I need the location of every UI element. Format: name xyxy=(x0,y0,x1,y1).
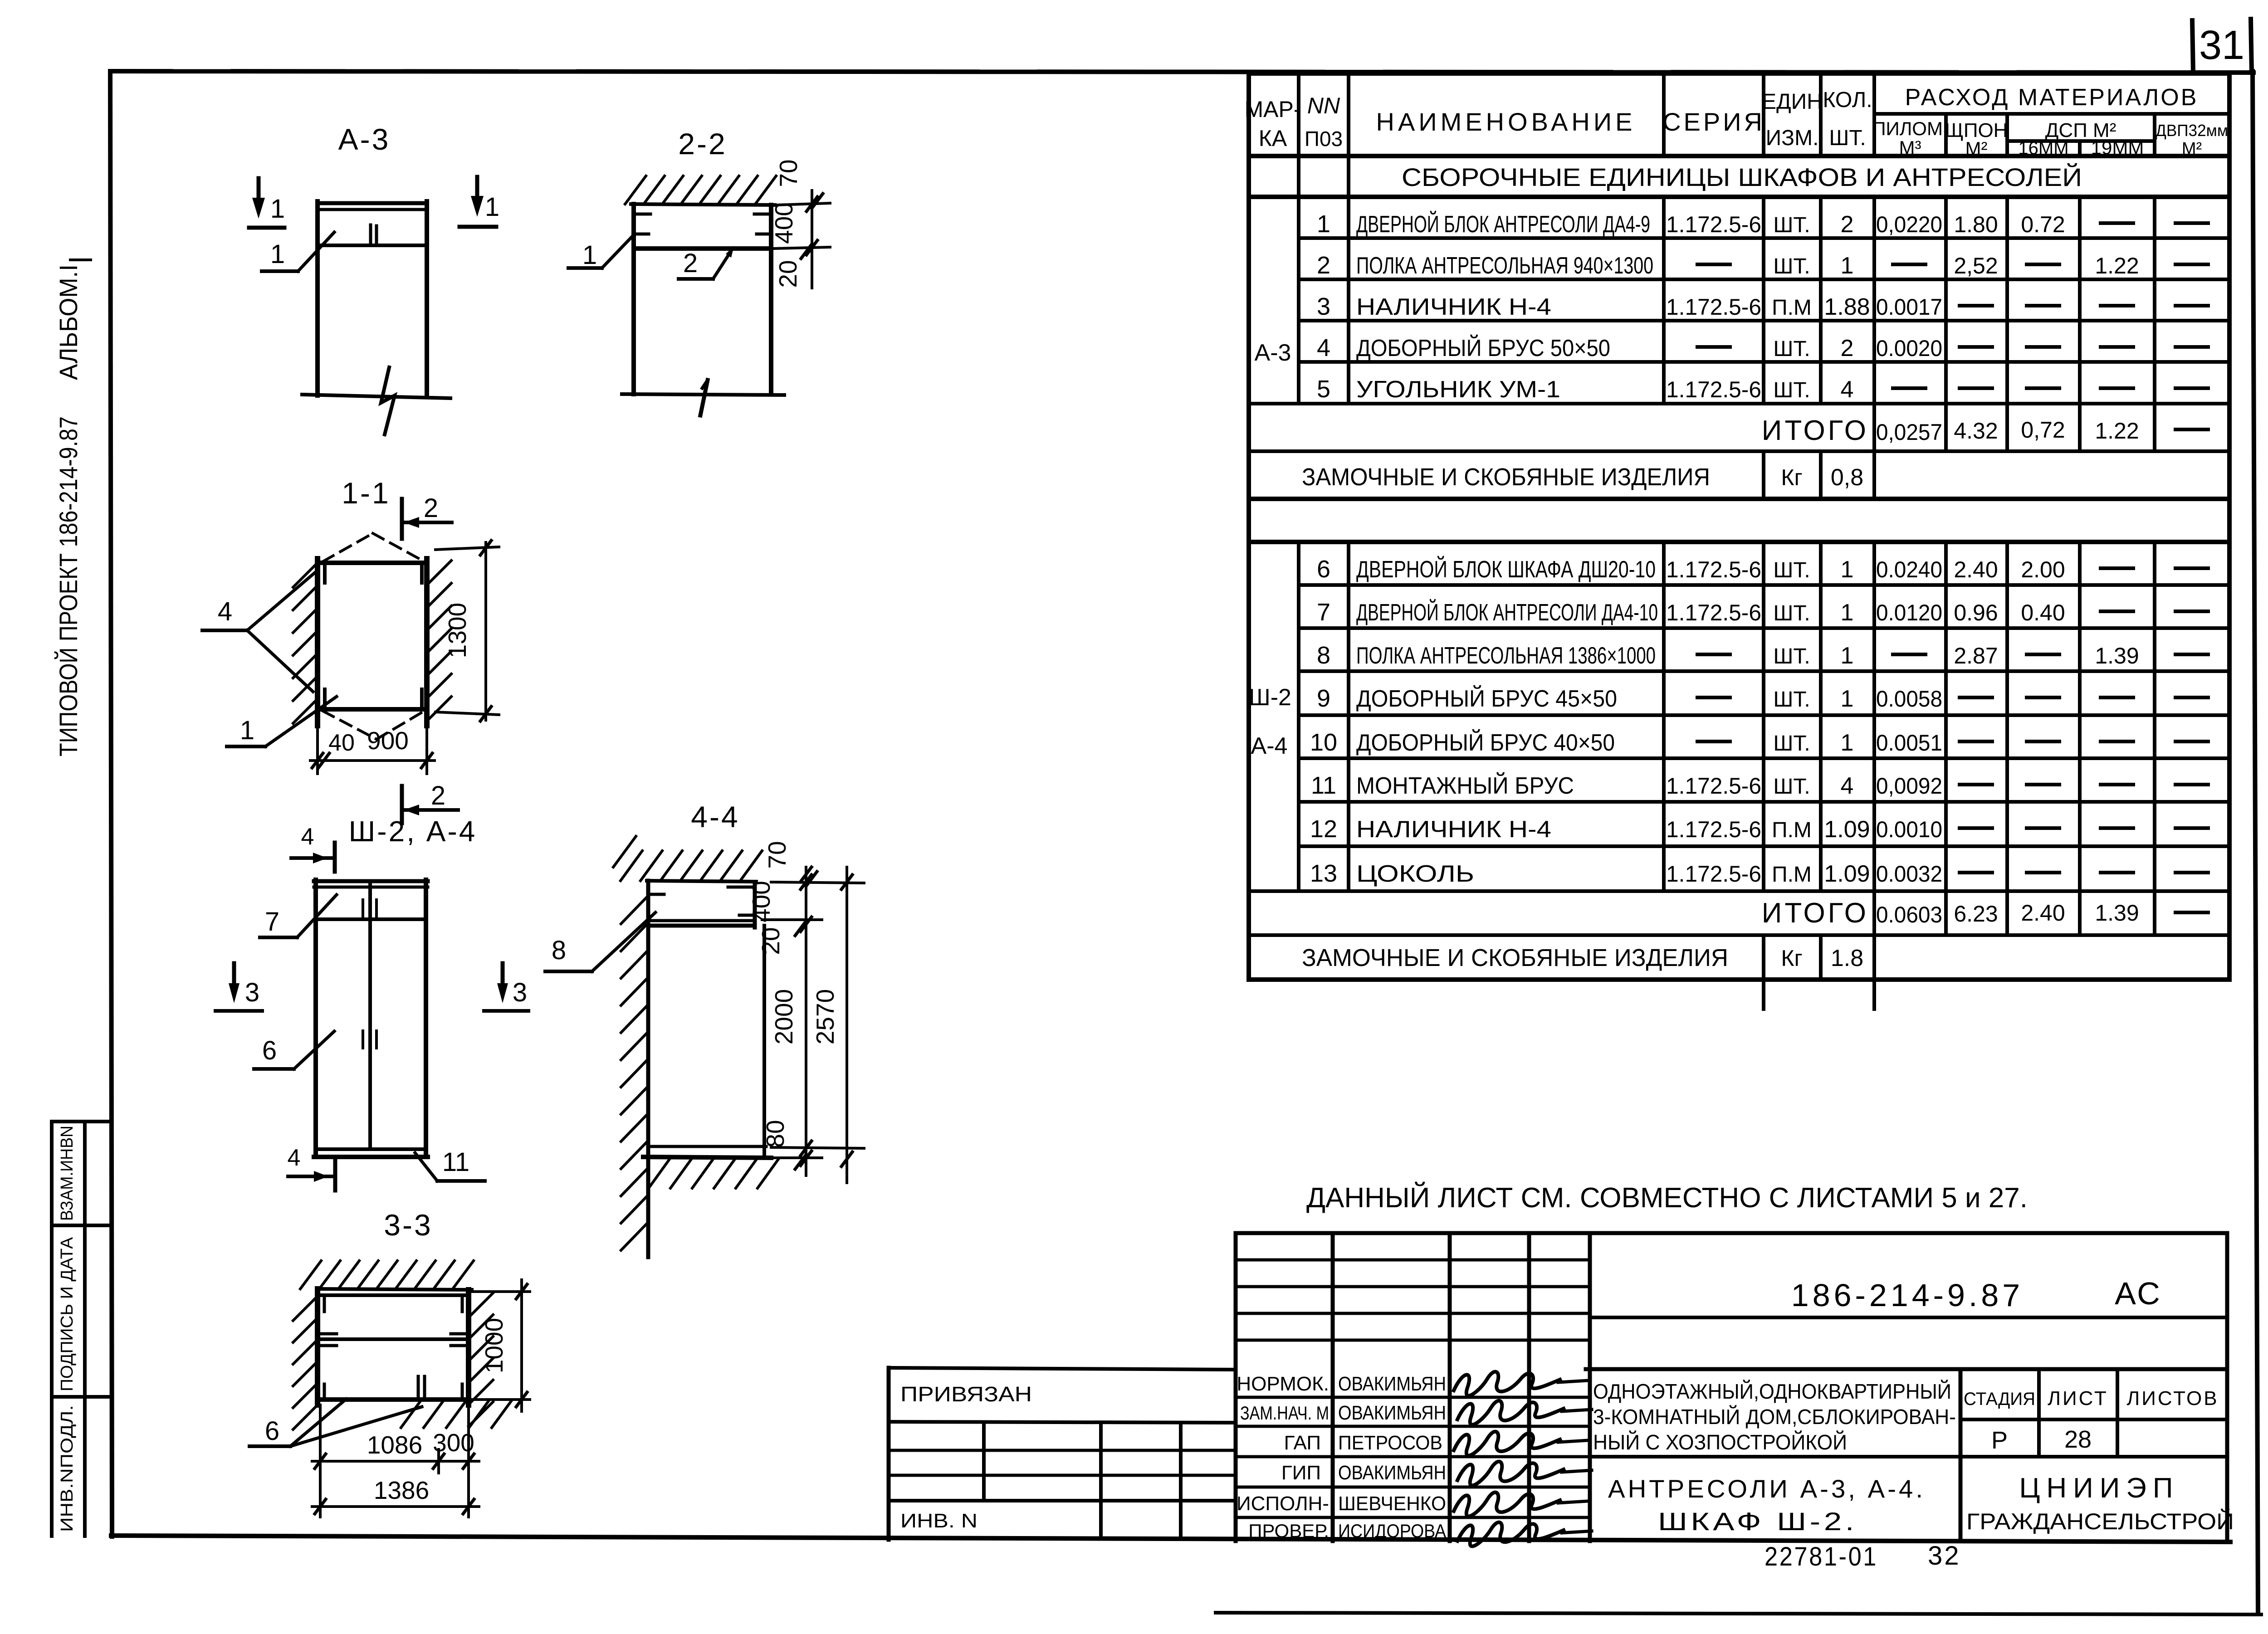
svg-text:ИТОГО: ИТОГО xyxy=(1762,415,1869,446)
table row 10 xyxy=(1310,729,2208,756)
svg-text:4: 4 xyxy=(1317,334,1330,361)
svg-text:1: 1 xyxy=(240,716,254,745)
svg-text:2-2: 2-2 xyxy=(678,127,727,161)
svg-text:ШТ.: ШТ. xyxy=(1773,732,1810,756)
svg-text:ШТ.: ШТ. xyxy=(1773,688,1810,712)
elevation Ш-2 А-4 title xyxy=(349,815,477,848)
svg-text:1: 1 xyxy=(1841,253,1854,279)
svg-text:6: 6 xyxy=(1317,556,1330,583)
svg-text:11: 11 xyxy=(1311,772,1336,799)
svg-text:1.09: 1.09 xyxy=(1824,816,1870,843)
svg-text:ШТ.: ШТ. xyxy=(1773,558,1810,582)
left margin stamp: project name vertical text xyxy=(54,260,91,756)
table header texts xyxy=(1245,84,2229,191)
title block organization cell xyxy=(1966,1473,2234,1534)
section 3-3 left wall with hatch xyxy=(293,1289,318,1429)
svg-text:1.172.5-6: 1.172.5-6 xyxy=(1666,817,1761,842)
document number 22781-01 32 xyxy=(1765,1541,1961,1571)
svg-text:3: 3 xyxy=(245,978,259,1007)
table row 12 xyxy=(1310,815,2208,843)
svg-text:П.М: П.М xyxy=(1772,296,1812,320)
svg-text:ЗАМ.НАЧ. М: ЗАМ.НАЧ. М xyxy=(1240,1402,1329,1424)
svg-text:ШЕВЧЕНКО: ШЕВЧЕНКО xyxy=(1338,1493,1446,1515)
svg-text:0.72: 0.72 xyxy=(2021,212,2065,237)
svg-text:4: 4 xyxy=(218,597,232,626)
svg-text:А-4: А-4 xyxy=(1251,733,1288,759)
svg-text:Р: Р xyxy=(1991,1427,2008,1454)
table row 8 xyxy=(1317,642,2208,669)
svg-text:П03: П03 xyxy=(1305,127,1343,151)
svg-text:ИЗМ.: ИЗМ. xyxy=(1766,126,1819,150)
svg-text:М²: М² xyxy=(1965,138,1988,159)
svg-text:1: 1 xyxy=(1841,686,1854,712)
svg-text:0.0120: 0.0120 xyxy=(1876,600,1942,625)
section 4-4 antresol box xyxy=(648,885,755,927)
svg-text:0.0017: 0.0017 xyxy=(1876,294,1942,320)
table row итого section 2 xyxy=(1762,897,2208,929)
svg-text:8: 8 xyxy=(1317,642,1330,669)
svg-text:1.172.5-6: 1.172.5-6 xyxy=(1666,557,1761,582)
section 3-3 dimension 1000 xyxy=(472,1280,530,1411)
svg-text:32: 32 xyxy=(1928,1541,1961,1571)
table row 1 xyxy=(1317,210,2208,238)
section 3-3 leader 6 xyxy=(249,1399,422,1446)
svg-text:7: 7 xyxy=(265,907,279,937)
svg-text:1.172.5-6: 1.172.5-6 xyxy=(1666,600,1761,625)
svg-text:Кг: Кг xyxy=(1781,946,1802,971)
svg-text:ПИЛОМ.: ПИЛОМ. xyxy=(1872,118,1948,139)
svg-text:Кг: Кг xyxy=(1781,465,1802,490)
svg-text:3-КОМНАТНЫЙ ДОМ,СБЛОКИРОВАН-: 3-КОМНАТНЫЙ ДОМ,СБЛОКИРОВАН- xyxy=(1593,1405,1956,1429)
svg-text:2: 2 xyxy=(1841,211,1854,238)
svg-text:4-4: 4-4 xyxy=(691,800,739,834)
svg-text:0.0020: 0.0020 xyxy=(1876,336,1942,361)
title block personnel names xyxy=(1338,1373,1446,1541)
svg-text:0,0220: 0,0220 xyxy=(1876,212,1942,237)
svg-text:19ММ: 19ММ xyxy=(2091,137,2144,158)
svg-text:1300: 1300 xyxy=(443,603,471,658)
section 4-4 title xyxy=(691,800,739,834)
svg-text:1.88: 1.88 xyxy=(1824,294,1870,320)
svg-text:А-3: А-3 xyxy=(1255,340,1291,366)
title block stadia list listov xyxy=(1960,1369,2227,1541)
svg-text:10: 10 xyxy=(1310,729,1337,756)
svg-text:УГОЛЬНИК УМ-1: УГОЛЬНИК УМ-1 xyxy=(1356,376,1560,403)
svg-text:2.40: 2.40 xyxy=(2021,900,2065,926)
table row итого section 1 xyxy=(1762,415,2208,446)
elevation Ш-2 cut mark 4 top xyxy=(291,824,335,872)
svg-text:ПЕТРОСОВ: ПЕТРОСОВ xyxy=(1338,1432,1442,1454)
svg-text:ЗАМОЧНЫЕ И СКОБЯНЫЕ ИЗДЕЛИЯ: ЗАМОЧНЫЕ И СКОБЯНЫЕ ИЗДЕЛИЯ xyxy=(1302,944,1728,971)
svg-text:ИТОГО: ИТОГО xyxy=(1762,897,1869,929)
elevation Ш-2 leader 11 xyxy=(415,1147,485,1181)
svg-text:1000: 1000 xyxy=(480,1318,508,1373)
svg-text:6: 6 xyxy=(262,1036,277,1065)
svg-text:13: 13 xyxy=(1310,860,1337,887)
section 1-1 title xyxy=(342,476,390,510)
svg-text:ПОЛКА АНТРЕСОЛЬНАЯ 940×1300: ПОЛКА АНТРЕСОЛЬНАЯ 940×1300 xyxy=(1356,253,1653,279)
title block sheet name cell xyxy=(1590,1457,2227,1536)
svg-text:НОРМОК.: НОРМОК. xyxy=(1237,1373,1329,1395)
svg-text:20: 20 xyxy=(757,927,785,955)
svg-text:6: 6 xyxy=(265,1416,279,1446)
section 4-4 wall with hatch xyxy=(621,881,648,1257)
table row 6 xyxy=(1317,556,2208,583)
svg-text:ДВЕРНОЙ БЛОК АНТРЕСОЛИ ДА4-9: ДВЕРНОЙ БЛОК АНТРЕСОЛИ ДА4-9 xyxy=(1356,211,1650,238)
svg-text:ОВАКИМЬЯН: ОВАКИМЬЯН xyxy=(1338,1373,1446,1395)
elevation Ш-2 cut mark 4 bottom xyxy=(288,1145,335,1190)
svg-text:0,0257: 0,0257 xyxy=(1876,419,1942,445)
svg-text:КОЛ.: КОЛ. xyxy=(1823,88,1872,112)
table row 3 xyxy=(1317,293,2208,320)
svg-text:2: 2 xyxy=(1317,252,1330,279)
section 1-1 right wall with hatch xyxy=(427,559,451,726)
svg-text:6.23: 6.23 xyxy=(1954,901,1998,927)
svg-text:2: 2 xyxy=(683,249,698,278)
svg-text:ШТ.: ШТ. xyxy=(1773,337,1810,361)
svg-text:ЦНИИЭП: ЦНИИЭП xyxy=(2019,1473,2180,1504)
section 1-1 dimension 1300 xyxy=(435,541,499,721)
svg-text:ДВЕРНОЙ БЛОК АНТРЕСОЛИ ДА4-10: ДВЕРНОЙ БЛОК АНТРЕСОЛИ ДА4-10 xyxy=(1356,599,1658,626)
svg-text:8: 8 xyxy=(552,936,566,965)
svg-text:28: 28 xyxy=(2064,1426,2092,1453)
svg-text:Ш-2, А-4: Ш-2, А-4 xyxy=(349,815,477,848)
svg-text:СТАДИЯ: СТАДИЯ xyxy=(1964,1389,2035,1409)
svg-text:4: 4 xyxy=(1841,376,1854,403)
svg-text:НАЛИЧНИК Н-4: НАЛИЧНИК Н-4 xyxy=(1356,294,1551,320)
svg-text:0.0240: 0.0240 xyxy=(1876,557,1942,582)
svg-text:ШТ.: ШТ. xyxy=(1829,126,1866,150)
elevation Ш-2 cut mark 3 left xyxy=(215,963,262,1011)
svg-text:ШТ.: ШТ. xyxy=(1773,378,1810,402)
drawing A-3 section mark 1 right xyxy=(459,177,499,227)
title block project name cell xyxy=(1586,1369,2227,1454)
section 3-3 ceiling with hatch xyxy=(300,1261,474,1290)
table row 4 xyxy=(1317,334,2208,361)
svg-text:1.172.5-6: 1.172.5-6 xyxy=(1666,773,1761,799)
svg-text:0.96: 0.96 xyxy=(1954,600,1998,625)
svg-text:ШТ.: ШТ. xyxy=(1773,644,1810,668)
svg-text:МОНТАЖНЫЙ БРУС: МОНТАЖНЫЙ БРУС xyxy=(1356,772,1574,799)
svg-text:1: 1 xyxy=(1841,730,1854,756)
table row замочные изделия section 2 xyxy=(1302,944,1863,971)
svg-text:ШКАФ Ш-2.: ШКАФ Ш-2. xyxy=(1658,1507,1857,1536)
svg-text:0,8: 0,8 xyxy=(1831,464,1863,491)
section 3-3 cabinet plan box xyxy=(320,1295,466,1400)
elevation Ш-2 cut mark 3 right xyxy=(484,963,528,1011)
section 2-2 floor break line xyxy=(622,380,784,415)
svg-text:300: 300 xyxy=(433,1429,474,1457)
svg-text:М³: М³ xyxy=(1899,137,1921,158)
svg-text:3-3: 3-3 xyxy=(384,1208,432,1242)
section 2-2 dimension chain 70 400 20 xyxy=(770,159,830,288)
svg-text:1.22: 1.22 xyxy=(2095,253,2139,278)
svg-text:22781-01: 22781-01 xyxy=(1765,1542,1878,1571)
svg-text:0.0603: 0.0603 xyxy=(1876,902,1942,927)
table marka labels xyxy=(1249,340,1291,759)
svg-text:16ММ: 16ММ xyxy=(2018,138,2068,158)
materials table grid xyxy=(1249,73,2229,1009)
svg-text:ШТ.: ШТ. xyxy=(1773,213,1810,237)
svg-text:3: 3 xyxy=(513,978,527,1007)
svg-text:1: 1 xyxy=(1317,210,1330,238)
drawing A-3 title xyxy=(338,122,391,156)
svg-text:2: 2 xyxy=(431,781,445,810)
section 1-1 left wall with hatch xyxy=(293,559,318,726)
svg-text:ИНВ. N: ИНВ. N xyxy=(900,1510,978,1532)
svg-text:12: 12 xyxy=(1310,815,1337,843)
section 4-4 floor with hatch xyxy=(643,1146,778,1188)
svg-text:П.М: П.М xyxy=(1772,818,1812,842)
table row 5 xyxy=(1317,376,2208,403)
svg-text:ТИПОВОЙ ПРОЕКТ 186-214-9.87: ТИПОВОЙ ПРОЕКТ 186-214-9.87 xyxy=(54,416,83,756)
section 1-1 leader 4 xyxy=(202,572,315,692)
svg-text:ДОБОРНЫЙ БРУС 50×50: ДОБОРНЫЙ БРУС 50×50 xyxy=(1356,335,1610,361)
svg-text:186-214-9.87: 186-214-9.87 xyxy=(1791,1278,2024,1313)
svg-text:2,52: 2,52 xyxy=(1954,253,1998,278)
svg-text:ЕДИН: ЕДИН xyxy=(1762,90,1823,114)
note: see sheets 5 and 27 xyxy=(1306,1182,2028,1214)
svg-text:ШТ.: ШТ. xyxy=(1773,775,1810,799)
section 4-4 dimension chain 70 400 20 2000 80 xyxy=(747,841,864,1176)
svg-text:ЛИСТОВ: ЛИСТОВ xyxy=(2126,1387,2219,1410)
section 1-1 cut mark 2 top xyxy=(402,493,452,539)
svg-text:ИСИДОРОВА: ИСИДОРОВА xyxy=(1338,1520,1446,1541)
svg-text:40: 40 xyxy=(328,730,355,756)
svg-text:1.172.5-6: 1.172.5-6 xyxy=(1666,861,1761,887)
section 2-2 cabinet section xyxy=(634,204,771,394)
svg-text:НАЛИЧНИК Н-4: НАЛИЧНИК Н-4 xyxy=(1356,816,1551,843)
svg-text:NN: NN xyxy=(1307,93,1340,118)
svg-text:2: 2 xyxy=(1841,335,1854,361)
svg-text:1.22: 1.22 xyxy=(2095,418,2139,444)
section 2-2 leader 1 xyxy=(568,235,634,270)
svg-text:900: 900 xyxy=(367,727,409,755)
svg-text:ШТ.: ШТ. xyxy=(1773,601,1810,625)
svg-text:1.39: 1.39 xyxy=(2095,900,2139,926)
svg-text:2570: 2570 xyxy=(811,989,839,1044)
section 3-3 right wall with hatch xyxy=(469,1290,493,1426)
svg-text:3: 3 xyxy=(1317,293,1330,320)
svg-text:1.39: 1.39 xyxy=(2095,643,2139,668)
section 3-3 floor hatch xyxy=(401,1400,512,1428)
svg-text:0.0058: 0.0058 xyxy=(1876,686,1942,712)
section 1-1 cut mark 2 bottom xyxy=(402,781,458,823)
svg-text:0.40: 0.40 xyxy=(2021,600,2065,625)
svg-text:ГИП: ГИП xyxy=(1281,1462,1321,1484)
svg-text:2000: 2000 xyxy=(770,989,798,1044)
svg-text:4.32: 4.32 xyxy=(1954,418,1998,444)
svg-text:1.172.5-6: 1.172.5-6 xyxy=(1666,294,1761,320)
svg-text:ПРОВЕР.: ПРОВЕР. xyxy=(1248,1520,1329,1541)
elevation Ш-2 cabinet front xyxy=(314,880,428,1157)
svg-text:ИНВ.NПОДЛ.: ИНВ.NПОДЛ. xyxy=(58,1405,77,1532)
svg-text:2.40: 2.40 xyxy=(1954,557,1998,582)
svg-text:ВЗАМ.ИНВN: ВЗАМ.ИНВN xyxy=(58,1126,77,1221)
svg-text:7: 7 xyxy=(1317,599,1330,626)
svg-text:1.172.5-6: 1.172.5-6 xyxy=(1666,212,1761,237)
svg-text:20: 20 xyxy=(774,260,802,288)
section 3-3 title xyxy=(384,1208,432,1242)
svg-text:ГРАЖДАНСЕЛЬСТРОЙ: ГРАЖДАНСЕЛЬСТРОЙ xyxy=(1966,1508,2234,1534)
drawing A-3 section mark 1 left xyxy=(249,178,285,228)
svg-text:ЗАМОЧНЫЕ И СКОБЯНЫЕ ИЗДЕЛИЯ: ЗАМОЧНЫЕ И СКОБЯНЫЕ ИЗДЕЛИЯ xyxy=(1302,463,1710,491)
table row 9 xyxy=(1317,685,2208,712)
section 4-4 overall dimension 2570 xyxy=(811,867,852,1183)
svg-text:ПОДПИСЬ И ДАТА: ПОДПИСЬ И ДАТА xyxy=(58,1237,77,1391)
svg-text:СЕРИЯ: СЕРИЯ xyxy=(1662,107,1765,136)
svg-text:11: 11 xyxy=(442,1147,469,1177)
title block project number cell xyxy=(1590,1233,2227,1541)
page number box 31 xyxy=(2192,19,2252,73)
svg-text:РАСХОД МАТЕРИАЛОВ: РАСХОД МАТЕРИАЛОВ xyxy=(1905,84,2199,111)
svg-text:ОВАКИМЬЯН: ОВАКИМЬЯН xyxy=(1338,1462,1446,1484)
svg-text:400: 400 xyxy=(747,881,775,922)
svg-text:АЛЬБОМ.I: АЛЬБОМ.I xyxy=(54,264,83,380)
svg-text:ДОБОРНЫЙ БРУС 40×50: ДОБОРНЫЙ БРУС 40×50 xyxy=(1356,729,1615,756)
svg-text:ШТ.: ШТ. xyxy=(1773,254,1810,278)
svg-text:1: 1 xyxy=(270,239,285,269)
table row замочные изделия section 1 xyxy=(1302,463,1863,491)
section 4-4 ceiling with hatch xyxy=(613,836,762,882)
svg-text:1086: 1086 xyxy=(367,1431,422,1459)
title block privyazan sub-table xyxy=(889,1368,1236,1540)
svg-text:70: 70 xyxy=(774,159,802,187)
svg-text:ГАП: ГАП xyxy=(1284,1432,1321,1454)
svg-text:ДВП32мм: ДВП32мм xyxy=(2156,121,2228,140)
svg-text:А-3: А-3 xyxy=(338,122,391,156)
svg-text:ОВАКИМЬЯН: ОВАКИМЬЯН xyxy=(1338,1402,1446,1424)
table row 11 xyxy=(1311,772,2208,799)
section 2-2 ceiling with hatch xyxy=(625,176,776,205)
section 1-1 door swing dashed lines xyxy=(323,533,424,739)
elevation Ш-2 leader 7 xyxy=(260,895,337,937)
svg-text:4: 4 xyxy=(1841,773,1854,799)
svg-text:9: 9 xyxy=(1317,685,1330,712)
drawing A-3 leader 1 xyxy=(262,232,334,271)
svg-text:1: 1 xyxy=(582,240,597,270)
svg-text:1-1: 1-1 xyxy=(342,476,390,510)
svg-text:АНТРЕСОЛИ А-3, А-4.: АНТРЕСОЛИ А-3, А-4. xyxy=(1608,1474,1926,1503)
svg-text:5: 5 xyxy=(1317,376,1330,403)
svg-text:ПРИВЯЗАН: ПРИВЯЗАН xyxy=(900,1382,1032,1406)
svg-text:0.0032: 0.0032 xyxy=(1876,861,1942,887)
section 1-1 dimension 40 900 xyxy=(310,717,435,774)
svg-text:1386: 1386 xyxy=(374,1476,429,1504)
svg-text:2.87: 2.87 xyxy=(1954,643,1998,668)
drawing A-3 break line xyxy=(302,367,450,434)
svg-text:Ш-2: Ш-2 xyxy=(1249,684,1291,711)
title block personnel table grid xyxy=(1236,1233,1590,1541)
svg-text:КА: КА xyxy=(1259,126,1287,151)
svg-text:М²: М² xyxy=(2182,139,2202,158)
section 2-2 title xyxy=(678,127,727,161)
svg-text:0,72: 0,72 xyxy=(2021,417,2065,443)
svg-text:1.8: 1.8 xyxy=(1831,945,1863,971)
svg-text:1: 1 xyxy=(1841,600,1854,626)
svg-text:МАР-: МАР- xyxy=(1245,97,1301,122)
section 3-3 dimension 1386 xyxy=(312,1476,479,1514)
svg-text:1: 1 xyxy=(485,192,499,222)
svg-text:1.172.5-6: 1.172.5-6 xyxy=(1666,377,1761,402)
svg-text:НАИМЕНОВАНИЕ: НАИМЕНОВАНИЕ xyxy=(1376,107,1636,136)
svg-text:0.0010: 0.0010 xyxy=(1876,817,1942,842)
left margin boxes (inv/signature stamps) xyxy=(52,1122,110,1536)
svg-text:ИСПОЛН-: ИСПОЛН- xyxy=(1237,1493,1329,1515)
table row 7 xyxy=(1317,599,2208,626)
section 4-4 leader 8 xyxy=(545,912,655,971)
section 2-2 leader 2 xyxy=(679,246,734,279)
svg-text:1.80: 1.80 xyxy=(1954,212,1998,237)
svg-text:ДОБОРНЫЙ БРУС 45×50: ДОБОРНЫЙ БРУС 45×50 xyxy=(1356,685,1617,712)
svg-text:П.М: П.М xyxy=(1772,863,1812,887)
section 4-4 niche edge xyxy=(763,926,766,1157)
svg-text:ОДНОЭТАЖНЫЙ,ОДНОКВАРТИРНЫЙ: ОДНОЭТАЖНЫЙ,ОДНОКВАРТИРНЫЙ xyxy=(1593,1380,1951,1403)
svg-text:ДАННЫЙ ЛИСТ СМ. СОВМЕСТНО: ДАННЫЙ ЛИСТ СМ. СОВМЕСТНО С ЛИСТАМИ 5 и … xyxy=(1306,1182,2028,1214)
sheet bottom edge line xyxy=(1216,1613,2261,1614)
title block signatures xyxy=(1454,1372,1592,1546)
svg-text:ДВЕРНОЙ БЛОК ШКАФА ДШ20-10: ДВЕРНОЙ БЛОК ШКАФА ДШ20-10 xyxy=(1356,556,1656,583)
svg-text:0,0092: 0,0092 xyxy=(1876,773,1942,799)
section 1-1 leader 1 xyxy=(227,697,337,746)
svg-text:1.09: 1.09 xyxy=(1824,861,1870,887)
svg-text:АС: АС xyxy=(2115,1276,2162,1311)
svg-text:НЫЙ С ХОЗПОСТРОЙКОЙ: НЫЙ С ХОЗПОСТРОЙКОЙ xyxy=(1593,1430,1847,1454)
svg-text:2: 2 xyxy=(424,493,438,523)
svg-text:1: 1 xyxy=(1841,643,1854,669)
svg-text:80: 80 xyxy=(761,1120,789,1147)
svg-text:31: 31 xyxy=(2199,23,2244,68)
svg-text:2.00: 2.00 xyxy=(2021,557,2065,582)
svg-text:70: 70 xyxy=(763,841,791,868)
drawing A-3 cabinet elevation xyxy=(318,201,427,396)
svg-text:1: 1 xyxy=(1841,556,1854,583)
svg-text:ЦОКОЛЬ: ЦОКОЛЬ xyxy=(1356,861,1474,887)
svg-text:ЛИСТ: ЛИСТ xyxy=(2048,1387,2108,1410)
svg-text:ПОЛКА АНТРЕСОЛЬНАЯ 1386×1000: ПОЛКА АНТРЕСОЛЬНАЯ 1386×1000 xyxy=(1356,643,1656,669)
table row 13 xyxy=(1310,860,2208,887)
svg-text:СБОРОЧНЫЕ ЕДИНИЦЫ ШКАФОВ: СБОРОЧНЫЕ ЕДИНИЦЫ ШКАФОВ И АНТРЕСОЛЕЙ xyxy=(1402,163,2082,191)
table row 2 xyxy=(1317,252,2208,279)
svg-text:0.0051: 0.0051 xyxy=(1876,730,1942,756)
svg-text:4: 4 xyxy=(288,1145,301,1171)
section 3-3 dimension 1086 300 xyxy=(312,1405,479,1517)
section 1-1 cabinet plan box xyxy=(322,563,425,709)
elevation Ш-2 leader 6 xyxy=(254,1031,334,1069)
svg-text:4: 4 xyxy=(301,824,314,850)
svg-text:1: 1 xyxy=(270,194,285,224)
svg-text:400: 400 xyxy=(770,202,798,244)
title block personnel roles xyxy=(1237,1373,1329,1541)
